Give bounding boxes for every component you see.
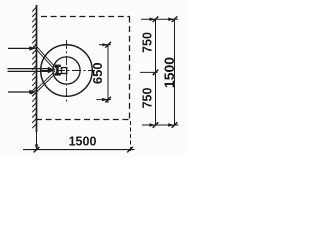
dim 650 top stub xyxy=(99,44,111,46)
inner circle xyxy=(53,57,80,84)
dim 650 bottom stub xyxy=(97,99,112,101)
upper strut (double line) xyxy=(33,44,56,70)
right ext bottom arrow xyxy=(168,123,174,126)
dim 650 line xyxy=(107,44,109,103)
clearance box dashed bottom edge xyxy=(36,119,130,121)
ticks bottom dim xyxy=(34,147,133,153)
vertical centerline xyxy=(66,40,68,102)
svg-text:750: 750 xyxy=(141,88,155,109)
outer circle xyxy=(41,45,93,97)
support line lower-left xyxy=(8,91,35,93)
pipe arrow xyxy=(48,67,55,74)
right dims extension bottom xyxy=(142,124,179,126)
dim 650 bottom tick xyxy=(105,97,111,103)
dim 650 top tick xyxy=(105,42,111,48)
lower strut (double line) xyxy=(31,71,56,96)
dim line 750/750 xyxy=(155,19,157,125)
support line upper-left xyxy=(8,47,35,49)
dim 650 top arrow xyxy=(102,43,108,46)
wall hatching xyxy=(32,7,36,128)
nozzle rect xyxy=(61,68,66,74)
bottom dim line 1500 xyxy=(23,149,135,151)
svg-text:1500: 1500 xyxy=(161,57,177,88)
horizontal centerline xyxy=(40,70,95,72)
dim line 1500 vertical xyxy=(174,19,176,125)
ticks right dims xyxy=(153,16,178,127)
arrow at wall upper xyxy=(29,46,36,50)
right ext top arrow at first line xyxy=(149,18,155,21)
svg-text:1500: 1500 xyxy=(69,134,97,148)
clearance box dashed top edge xyxy=(41,16,130,18)
bottom dim left arrow xyxy=(35,144,38,150)
right ext bottom arrow at first line xyxy=(149,123,155,126)
clearance box dashed right edge xyxy=(129,17,131,121)
pipe upper line xyxy=(8,68,49,70)
pipe lower line xyxy=(8,70,49,72)
svg-text:650: 650 xyxy=(90,62,105,84)
wall xyxy=(36,5,38,132)
right dims extension top xyxy=(141,18,178,20)
bottom right dashed extension xyxy=(130,121,132,152)
right ext top arrow xyxy=(168,18,174,21)
bottom left extension (wall extended) xyxy=(36,132,38,151)
svg-text:750: 750 xyxy=(141,32,155,53)
right dims extension middle xyxy=(140,71,158,73)
arrow at wall lower xyxy=(29,90,36,94)
valve body flange xyxy=(55,65,61,76)
dim 650 bottom arrow xyxy=(102,98,108,101)
